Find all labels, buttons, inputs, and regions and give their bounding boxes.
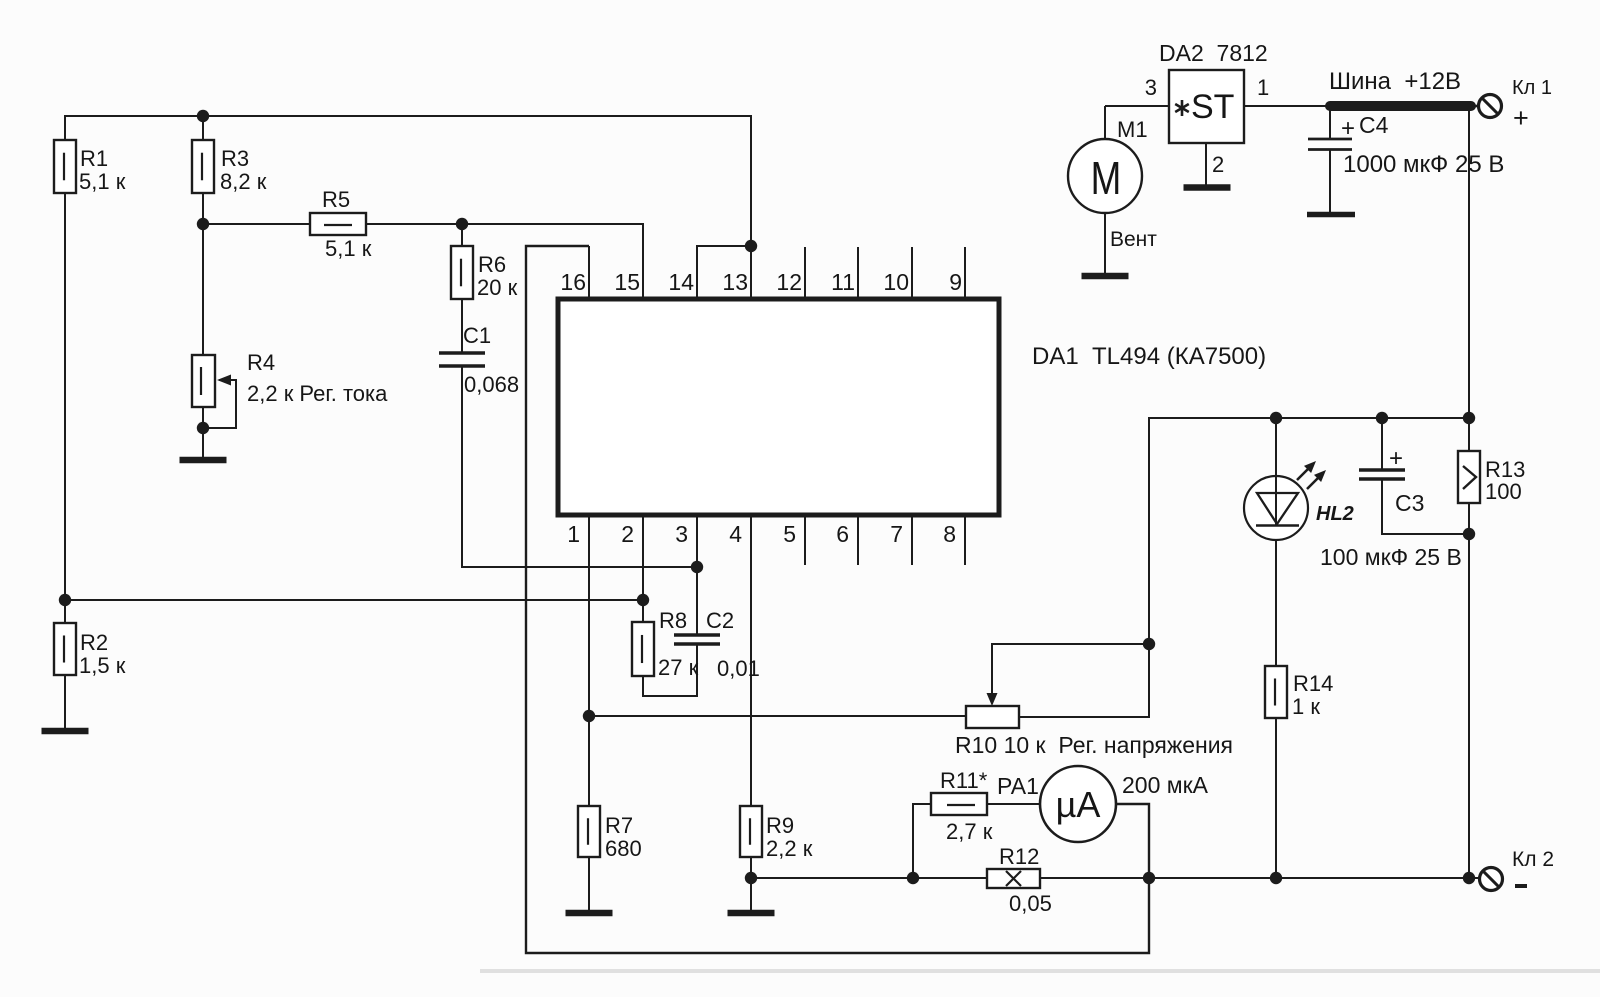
svg-text:20 к: 20 к <box>477 275 518 300</box>
svg-text:1: 1 <box>1257 75 1269 100</box>
svg-text:7: 7 <box>890 521 903 547</box>
svg-text:2: 2 <box>621 521 634 547</box>
svg-text:200 мкА: 200 мкА <box>1122 772 1209 798</box>
svg-text:+: + <box>1389 445 1403 472</box>
svg-text:15: 15 <box>614 269 640 295</box>
svg-text:8,2 к: 8,2 к <box>220 169 267 194</box>
svg-text:C2: C2 <box>706 608 734 633</box>
svg-text:0,068: 0,068 <box>464 372 519 397</box>
svg-text:R14: R14 <box>1293 671 1333 696</box>
svg-text:R8: R8 <box>659 608 687 633</box>
svg-text:Кл 1: Кл 1 <box>1512 77 1552 99</box>
svg-text:2,2 к Рег. тока: 2,2 к Рег. тока <box>247 381 388 406</box>
svg-text:ST: ST <box>1191 88 1234 126</box>
svg-text:HL2: HL2 <box>1316 503 1354 525</box>
svg-text:680: 680 <box>605 836 642 861</box>
svg-text:27 к: 27 к <box>658 655 699 680</box>
svg-text:R1: R1 <box>80 146 108 171</box>
svg-text:8: 8 <box>943 521 956 547</box>
svg-text:3: 3 <box>1145 75 1157 100</box>
svg-text:R11*: R11* <box>940 768 988 793</box>
svg-text:С4: С4 <box>1359 112 1389 138</box>
svg-text:R7: R7 <box>605 813 633 838</box>
svg-text:R2: R2 <box>80 630 108 655</box>
svg-text:11: 11 <box>831 269 855 295</box>
svg-text:R12: R12 <box>999 844 1039 869</box>
svg-text:1 к: 1 к <box>1292 694 1320 719</box>
svg-text:4: 4 <box>729 521 742 547</box>
svg-text:16: 16 <box>560 269 586 295</box>
svg-text:10: 10 <box>883 269 909 295</box>
svg-text:0,01: 0,01 <box>717 656 760 681</box>
svg-text:РА1: РА1 <box>997 773 1039 799</box>
svg-text:Кл 2: Кл 2 <box>1512 848 1554 871</box>
svg-text:14: 14 <box>668 269 694 295</box>
svg-text:М1: М1 <box>1117 117 1148 142</box>
svg-text:R10 10 к Рег. напряжения: R10 10 к Рег. напряжения <box>955 732 1233 758</box>
svg-text:R3: R3 <box>221 146 249 171</box>
svg-text:+: + <box>1513 103 1529 133</box>
svg-text:3: 3 <box>675 521 688 547</box>
svg-text:2,2 к: 2,2 к <box>766 836 813 861</box>
svg-text:5: 5 <box>783 521 796 547</box>
svg-text:R9: R9 <box>766 813 794 838</box>
svg-text:13: 13 <box>722 269 748 295</box>
svg-text:C3: C3 <box>1395 490 1424 516</box>
svg-text:9: 9 <box>949 269 962 295</box>
svg-text:+: + <box>1341 115 1355 142</box>
svg-text:5,1 к: 5,1 к <box>325 236 372 261</box>
svg-text:Шина +12В: Шина +12В <box>1329 68 1461 95</box>
svg-text:100 мкФ 25 В: 100 мкФ 25 В <box>1320 544 1462 570</box>
svg-text:100: 100 <box>1485 479 1522 504</box>
svg-text:C1: C1 <box>463 323 491 348</box>
svg-text:1000 мкФ 25 В: 1000 мкФ 25 В <box>1343 151 1504 178</box>
svg-text:R5: R5 <box>322 187 350 212</box>
svg-text:6: 6 <box>836 521 849 547</box>
svg-text:R6: R6 <box>478 252 506 277</box>
svg-text:5,1 к: 5,1 к <box>79 169 126 194</box>
svg-text:1,5 к: 1,5 к <box>79 653 126 678</box>
svg-text:12: 12 <box>776 269 802 295</box>
svg-text:DA1 TL494 (КА7500): DA1 TL494 (КА7500) <box>1032 343 1266 370</box>
svg-text:2: 2 <box>1212 152 1224 177</box>
svg-text:DA2 7812: DA2 7812 <box>1159 40 1268 66</box>
svg-text:2,7 к: 2,7 к <box>946 819 993 844</box>
svg-text:M: M <box>1091 152 1122 204</box>
svg-text:Вент: Вент <box>1110 228 1157 251</box>
svg-text:0,05: 0,05 <box>1009 891 1052 916</box>
svg-text:µA: µA <box>1056 784 1101 825</box>
svg-text:R4: R4 <box>247 350 275 375</box>
svg-text:1: 1 <box>567 521 580 547</box>
